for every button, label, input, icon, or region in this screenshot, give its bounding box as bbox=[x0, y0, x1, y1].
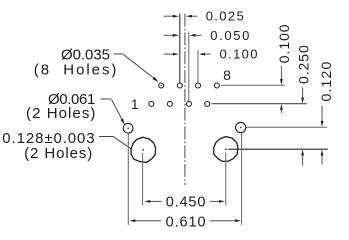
svg-text:8: 8 bbox=[223, 67, 231, 83]
extension line column B (x=188.9, hole B3 column) bbox=[188, 32, 190, 102]
hole T2 (0.035) bbox=[177, 83, 182, 88]
hole T4 (0.035) bbox=[214, 83, 219, 88]
svg-text:0.610: 0.610 bbox=[166, 214, 206, 230]
right extension line 0.061 row y=127.2 bbox=[246, 126, 327, 128]
leader for 0.061 holes bbox=[100, 99, 123, 121]
dimension 0.250 vertical arrows bbox=[302, 88, 304, 99]
right extension line bottom row y=103.4 bbox=[211, 103, 306, 105]
hole B3 (0.035) bbox=[186, 101, 191, 106]
extension line 0.128 right down bbox=[225, 152, 227, 205]
svg-text:0.120: 0.120 bbox=[318, 62, 334, 102]
extension line 0.061 left down bbox=[127, 133, 129, 225]
extension line 0.128 left down bbox=[142, 153, 144, 205]
leader for 0.128 holes bbox=[99, 137, 131, 149]
extension line 0.061 right down bbox=[241, 133, 243, 225]
svg-text:(8 Holes): (8 Holes) bbox=[34, 62, 117, 79]
hole B2 (0.035) bbox=[167, 101, 172, 106]
dimension 0.025 right arrow bbox=[191, 15, 198, 17]
svg-text:0.450: 0.450 bbox=[166, 194, 206, 210]
dimension 0.100 left arrow bbox=[164, 53, 175, 55]
extension line column C (x=198.3, hole T3 column) bbox=[197, 50, 199, 83]
svg-text:0.100: 0.100 bbox=[220, 47, 258, 62]
hole 0.128 right (wobbly circle) bbox=[214, 137, 238, 162]
hole 0.061 left bbox=[123, 123, 133, 133]
svg-text:1: 1 bbox=[131, 97, 139, 112]
hole 0.128 left (wobbly circle) bbox=[131, 137, 156, 162]
dimension 0.100 right arrow bbox=[204, 53, 211, 55]
hole B4 (0.035) bbox=[205, 101, 210, 106]
dimension 0.100 vertical arrows bbox=[280, 66, 282, 80]
hole T3 (0.035) bbox=[196, 83, 201, 88]
svg-text:0.025: 0.025 bbox=[206, 9, 244, 24]
dimension 0.025 left arrow bbox=[164, 15, 175, 17]
svg-text:0.050: 0.050 bbox=[210, 28, 249, 43]
right extension line top row y=85 bbox=[221, 84, 285, 86]
dimension 0.120 vertical arrows bbox=[321, 106, 323, 123]
dimension 0.610 bbox=[134, 220, 236, 222]
hole B1 (0.035) bbox=[149, 101, 154, 106]
extension line column A (x=179.9, hole T2 column) bbox=[179, 14, 181, 83]
svg-text:0.100: 0.100 bbox=[276, 24, 292, 63]
hole 0.061 right bbox=[236, 122, 246, 132]
centerline (vertical dash-dot) bbox=[184, 14, 186, 185]
leader for 0.035 holes bbox=[114, 54, 156, 80]
svg-text:(2 Holes): (2 Holes) bbox=[24, 145, 92, 162]
svg-text:(2 Holes): (2 Holes) bbox=[26, 105, 95, 122]
dimension 0.050 right arrow bbox=[195, 34, 202, 36]
right extension line 0.128 row y=149.3 bbox=[228, 148, 328, 150]
svg-text:0.250: 0.250 bbox=[295, 45, 311, 84]
dimension 0.050 left arrow bbox=[164, 34, 175, 36]
dimension 0.450 bbox=[149, 200, 220, 202]
hole T1 (0.035) bbox=[159, 83, 164, 88]
